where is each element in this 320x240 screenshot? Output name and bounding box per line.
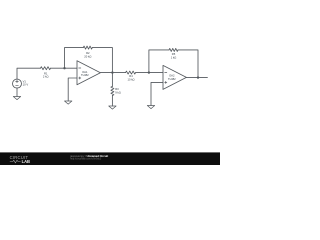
resistor R1 (41, 67, 51, 70)
resistor R4 (126, 71, 136, 74)
ground (OA2 non-inverting) (147, 106, 154, 109)
voltage source V1 (13, 79, 22, 88)
op-amp OA2 (163, 65, 186, 89)
wire V1 top to node A (17, 68, 41, 79)
resistor R5 (169, 48, 178, 51)
svg-text:10 kΩ: 10 kΩ (127, 77, 134, 81)
node A junction (63, 67, 65, 69)
op-amp OA1 (77, 61, 100, 85)
wire OA2 output (186, 77, 207, 79)
footer banner (0, 152, 220, 165)
svg-text:TL082: TL082 (168, 77, 176, 81)
wire node B down to resistor R3 (111, 73, 113, 87)
svg-text:OA2: OA2 (169, 74, 175, 78)
svg-text:20 kΩ: 20 kΩ (84, 55, 91, 59)
wire feedback loop 2 (right, down to output node D) (178, 50, 198, 78)
footer attribution text (69, 154, 108, 161)
svg-text:9 kΩ: 9 kΩ (115, 90, 121, 94)
wire R3 to ground (111, 96, 113, 107)
wire V1 bottom to ground (16, 88, 18, 97)
svg-text:TL082: TL082 (81, 73, 89, 77)
ground (OA1 non-inverting) (65, 101, 72, 104)
svg-text:10 V: 10 V (23, 82, 29, 86)
wire R1 to op-amp OA1 inverting input (51, 67, 78, 69)
wire OA1 output to node B (100, 72, 125, 74)
svg-text:1 kΩ: 1 kΩ (171, 55, 177, 59)
svg-text:http://circuitlab.com/c/9e9dc3: http://circuitlab.com/c/9e9dc3 (70, 158, 102, 161)
ground (under R3) (109, 106, 116, 109)
svg-text:LAB: LAB (22, 159, 30, 164)
ground (under V1) (13, 97, 20, 100)
resistor R2 (83, 46, 92, 49)
wire feedback loop 1 (left and top) (65, 48, 84, 69)
wire feedback loop 1 (right, down to output node B) (92, 48, 112, 73)
node C junction (148, 71, 150, 73)
resistor R3 (vertical) (111, 86, 114, 95)
svg-text:2 kΩ: 2 kΩ (43, 75, 49, 79)
CircuitLab logo (10, 155, 30, 164)
node B junction (111, 71, 113, 73)
wire OA2 non-inverting input to ground (151, 82, 163, 105)
wire OA1 non-inverting input to ground (68, 78, 77, 101)
wire R4 to op-amp OA2 inverting input (136, 72, 163, 74)
node D junction (197, 76, 199, 78)
wire feedback loop 2 (left and top) (149, 50, 169, 73)
